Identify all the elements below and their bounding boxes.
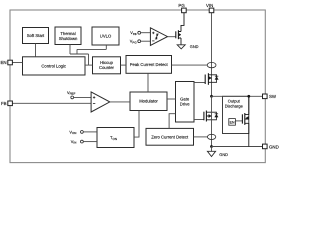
- wire uvlo stub: [105, 45, 107, 49]
- wire thermal shutdown down: [69, 45, 71, 55]
- hiccup counter block: [93, 57, 121, 74]
- svg-text:VFB: VFB: [130, 30, 136, 36]
- svg-text:Counter: Counter: [99, 65, 115, 70]
- op-amp PG comparator: [150, 28, 167, 46]
- wire soft start to control logic: [35, 44, 37, 57]
- wire rail1 to rail2 connector: [76, 49, 78, 54]
- current sense low side: [207, 134, 215, 139]
- svg-text:Shutdown: Shutdown: [59, 36, 78, 41]
- svg-text:EN: EN: [0, 60, 6, 65]
- ground (PG fet): [177, 45, 185, 49]
- IC outer border: [10, 10, 265, 163]
- svg-text:Peak Current Detect: Peak Current Detect: [130, 62, 169, 67]
- svg-text:PG: PG: [178, 3, 185, 8]
- svg-text:SW: SW: [269, 94, 277, 99]
- svg-text:VIN: VIN: [71, 139, 77, 145]
- svg-text:TON: TON: [110, 135, 117, 141]
- wire rail2: [70, 53, 89, 55]
- thermal shutdown block: [55, 27, 81, 45]
- terminal EN: [0, 60, 12, 65]
- svg-text:UVLO: UVLO: [100, 34, 112, 39]
- svg-text:FB: FB: [1, 101, 7, 106]
- terminal VIN: [206, 3, 214, 13]
- output discharge block: [223, 96, 249, 133]
- svg-text:GND: GND: [269, 144, 279, 149]
- wire EN to control logic: [12, 62, 22, 64]
- ground (main): [207, 151, 215, 156]
- svg-text:GND: GND: [219, 152, 228, 157]
- Vpg input circle: [138, 40, 141, 43]
- svg-text:VREF: VREF: [67, 90, 76, 96]
- wire comparator to PG fet gate: [168, 36, 176, 38]
- svg-text:Zero Current Detect: Zero Current Detect: [151, 134, 189, 139]
- wire peak current detect to sense: [172, 64, 208, 66]
- wire EN box to discharge fet gate: [235, 120, 242, 122]
- wire rail2 drop: [88, 54, 90, 65]
- terminal FB: [1, 101, 12, 106]
- EN box inside output discharge: [229, 119, 236, 126]
- wire gate drive to zero current detect: [169, 114, 175, 129]
- gate drive block: [176, 82, 195, 123]
- soft start block: [23, 28, 49, 44]
- modulator block: [130, 92, 167, 111]
- svg-text:GND: GND: [190, 44, 199, 49]
- peak current detect block: [126, 56, 172, 74]
- wire GND rail: [212, 146, 263, 148]
- UVLO block: [92, 27, 119, 45]
- node GND junction: [210, 145, 213, 148]
- control logic block: [23, 57, 86, 75]
- node SW junction: [210, 95, 213, 98]
- svg-text:VON: VON: [69, 129, 76, 135]
- wire gate drive to high-side gate: [194, 82, 205, 84]
- transistor output discharge: [242, 96, 248, 146]
- terminal SW: [263, 94, 277, 99]
- wire FB to error amp: [12, 102, 91, 104]
- op-amp error amplifier: [91, 92, 110, 112]
- svg-text:VIN: VIN: [206, 3, 213, 8]
- terminal GND: [263, 144, 279, 149]
- terminal PG: [178, 3, 186, 13]
- svg-text:VPG: VPG: [130, 39, 138, 45]
- svg-text:Modulator: Modulator: [139, 99, 158, 104]
- wire SW rail: [212, 95, 263, 97]
- wire peak current detect to modulator: [147, 73, 149, 92]
- wire hiccup to peak current detect: [121, 64, 127, 66]
- node discharge drain junction: [247, 95, 250, 98]
- wire control logic to hiccup: [85, 64, 93, 66]
- zero current detect block: [146, 128, 194, 145]
- wire modulator to gate drive: [167, 98, 176, 100]
- wire rail uvlo: [77, 48, 106, 50]
- transistor high-side: [205, 73, 218, 85]
- wire VIN down to sense: [211, 13, 213, 97]
- transistor low-side: [204, 111, 218, 122]
- svg-text:EN: EN: [230, 120, 235, 124]
- svg-text:Drive: Drive: [180, 101, 190, 106]
- wire error amp to modulator: [110, 101, 130, 103]
- wire gate drive to low-side gate: [194, 119, 204, 121]
- wire zero current detect to sense: [194, 136, 208, 138]
- svg-text:Soft Start: Soft Start: [27, 33, 45, 38]
- Ton generator block: [97, 128, 134, 148]
- svg-text:Control Logic: Control Logic: [41, 63, 66, 68]
- svg-text:Discharge: Discharge: [225, 104, 244, 109]
- wire Ton to modulator: [134, 111, 139, 138]
- transistor PG (open drain): [176, 13, 184, 45]
- wire gnd stub: [211, 147, 213, 152]
- wire SW to low-side fet: [211, 96, 213, 146]
- current sense high side: [207, 62, 216, 67]
- Vfb input circle: [138, 31, 141, 34]
